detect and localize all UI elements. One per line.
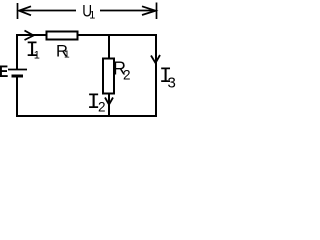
wire: middle branch upper — [108, 34, 110, 59]
wire: bottom wire — [16, 115, 157, 117]
svg-text:1: 1 — [89, 9, 95, 21]
dimension tick left — [17, 3, 19, 19]
battery E plates — [8, 69, 27, 71]
svg-text:E: E — [0, 63, 8, 81]
svg-text:1: 1 — [34, 49, 40, 61]
svg-text:3: 3 — [168, 74, 176, 91]
wire: left wire upper (to battery) — [16, 34, 18, 69]
dimension tick right — [156, 3, 158, 20]
svg-text:1: 1 — [64, 48, 70, 60]
current arrow I2 — [105, 98, 113, 105]
current arrow I1 — [25, 31, 34, 41]
dimension arrow right (U1) — [100, 10, 155, 12]
wire: right wire — [155, 34, 157, 117]
svg-text:2: 2 — [98, 99, 106, 114]
svg-text:2: 2 — [123, 67, 131, 82]
dimension arrow left (U1) — [20, 10, 76, 12]
wire: middle branch lower — [108, 94, 110, 116]
current arrow I3 — [151, 55, 160, 63]
resistor R1 — [47, 32, 78, 40]
resistor R2 — [103, 59, 114, 94]
wire: left wire lower (from battery) — [16, 76, 18, 117]
wire: top wire — [16, 34, 156, 36]
